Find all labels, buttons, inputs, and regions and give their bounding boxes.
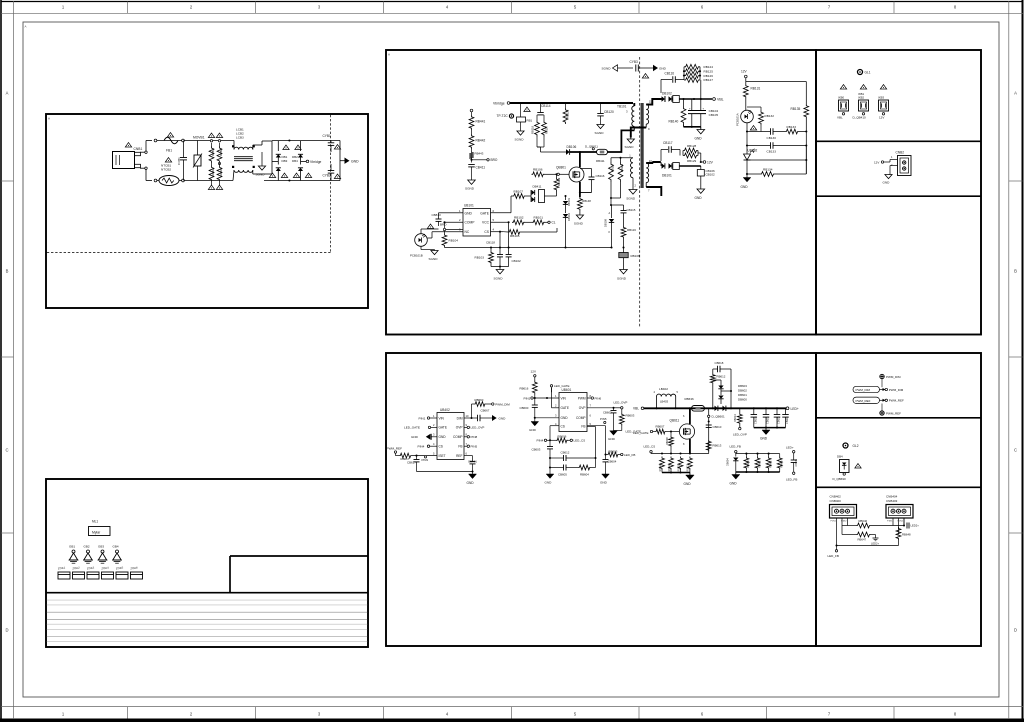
svg-text:CB612: CB612 bbox=[561, 451, 570, 455]
svg-text:DIM: DIM bbox=[457, 416, 463, 420]
svg-text:UB601: UB601 bbox=[562, 388, 572, 392]
svg-text:DB602: DB602 bbox=[738, 388, 747, 392]
wire secondary pin10 bbox=[646, 162, 661, 163]
svg-text:RB104: RB104 bbox=[449, 239, 459, 243]
varistor MOVB1 bbox=[197, 141, 199, 156]
svg-text:LED_FB: LED_FB bbox=[828, 554, 839, 558]
resistor RB103 bbox=[490, 248, 492, 252]
ground SGND secondary bbox=[630, 138, 632, 140]
wire opto to pin3 bbox=[420, 229, 422, 234]
svg-text:VBL: VBL bbox=[633, 407, 639, 411]
capacitor CB104 CB105 bbox=[691, 99, 693, 111]
wire Vbridge rail thick bbox=[510, 102, 633, 104]
transformer aux winding bbox=[631, 158, 634, 178]
ground GND UB601 vcc bbox=[531, 422, 539, 426]
svg-text:DB103: DB103 bbox=[567, 198, 571, 206]
svg-text:SGND: SGND bbox=[595, 131, 605, 135]
resistor RB106 gate bbox=[532, 172, 545, 177]
bridge diode DB2 bbox=[300, 141, 302, 151]
svg-text:SGND: SGND bbox=[494, 277, 504, 281]
wire cap bank bottom bbox=[754, 427, 786, 429]
svg-text:RB114: RB114 bbox=[611, 163, 615, 172]
capacitor CYB2 bbox=[328, 170, 335, 172]
svg-text:RB129: RB129 bbox=[687, 159, 697, 163]
node terminals line side bbox=[154, 139, 157, 142]
optocoupler PCB101A bbox=[745, 99, 747, 111]
thermistor NTCB1 NTCB2 bbox=[159, 176, 179, 186]
warning triangle opto bbox=[750, 126, 756, 130]
svg-text:GND: GND bbox=[608, 437, 616, 441]
svg-text:PIN9: PIN9 bbox=[422, 458, 429, 462]
svg-text:IXB0: IXB0 bbox=[838, 96, 845, 100]
svg-text:DB601: DB601 bbox=[738, 393, 747, 397]
sheet outer edge bbox=[1, 1, 1024, 3]
svg-text:DB411: DB411 bbox=[533, 185, 542, 189]
svg-text:RB128: RB128 bbox=[687, 144, 697, 148]
svg-text:CB813: CB813 bbox=[432, 213, 442, 217]
svg-text:PIN1: PIN1 bbox=[524, 396, 531, 400]
transformer secondary top bbox=[646, 105, 648, 125]
snubber riser bbox=[712, 384, 714, 408]
diodes DB103 DB104 CS bbox=[565, 196, 567, 200]
right column divider 2 bbox=[816, 195, 981, 197]
svg-text:D_QB410: D_QB410 bbox=[853, 116, 867, 120]
ground SGND under RB148 bbox=[579, 211, 581, 215]
warning triangle at CNB1 bbox=[125, 143, 131, 147]
svg-text:CB622: CB622 bbox=[778, 416, 781, 424]
boost diodes DB600-DB603 bbox=[720, 383, 722, 386]
node D_QB601 bbox=[708, 408, 710, 453]
node LED_GATE 601 bbox=[550, 385, 552, 387]
svg-text:GND: GND bbox=[600, 481, 608, 485]
svg-text:CYB2: CYB2 bbox=[323, 174, 332, 178]
warning triangle on rail bbox=[524, 107, 530, 111]
ground GND cap bank bbox=[765, 428, 767, 430]
svg-text:RB118: RB118 bbox=[531, 125, 535, 134]
wire gate drive riser bbox=[585, 161, 587, 170]
resistor RB603 bbox=[621, 409, 623, 413]
svg-text:Vbridge: Vbridge bbox=[493, 102, 505, 106]
node PIN5 out bbox=[464, 445, 467, 447]
svg-text:RB621: RB621 bbox=[687, 464, 690, 472]
transformer secondary bottom bbox=[646, 163, 648, 183]
svg-text:CB618: CB618 bbox=[715, 361, 724, 365]
svg-text:RB105: RB105 bbox=[510, 234, 520, 238]
resistor RB612 bbox=[710, 374, 715, 385]
svg-text:LED2+: LED2+ bbox=[871, 542, 879, 546]
pin PWM_DIM plated bbox=[880, 374, 884, 378]
capacitor CB130 bbox=[770, 128, 772, 135]
svg-text:PWM_REF: PWM_REF bbox=[889, 399, 904, 403]
wire secondary pin9 down bbox=[645, 124, 647, 127]
pin PWM_REF plated bbox=[880, 411, 884, 415]
svg-text:ML1: ML1 bbox=[92, 520, 98, 524]
node aux junction bbox=[610, 204, 612, 206]
wire OVP row bbox=[587, 407, 614, 409]
svg-text:LED_FB: LED_FB bbox=[786, 478, 797, 482]
wire pin4 CS bbox=[491, 231, 501, 233]
ground GND opto bbox=[743, 178, 751, 182]
svg-text:CB130: CB130 bbox=[767, 136, 777, 140]
block 1 dashed partition bbox=[330, 115, 332, 253]
svg-text:Mylar: Mylar bbox=[92, 530, 101, 534]
connector CNB1 bbox=[113, 152, 135, 169]
svg-text:RB442: RB442 bbox=[476, 139, 486, 143]
svg-text:RB647: RB647 bbox=[858, 538, 867, 542]
resistor RB131 bbox=[743, 84, 748, 99]
svg-text:RB148: RB148 bbox=[582, 199, 591, 203]
wire QB611 drain bbox=[689, 408, 691, 424]
capacitor CB605 bbox=[563, 465, 565, 471]
svg-text:COMP: COMP bbox=[576, 416, 586, 420]
svg-text:PIN4: PIN4 bbox=[418, 445, 425, 449]
divider resistors RXB lower bbox=[209, 166, 214, 182]
block 2 power stage border bbox=[386, 50, 816, 335]
svg-text:LB402: LB402 bbox=[659, 387, 668, 391]
svg-text:RB125: RB125 bbox=[704, 69, 714, 73]
LED driver block border bbox=[386, 353, 816, 646]
svg-text:LED_GATE: LED_GATE bbox=[633, 431, 648, 435]
resistor RB105 cs bbox=[500, 231, 503, 233]
svg-text:PWM_REF: PWM_REF bbox=[886, 412, 901, 416]
svg-text:LED_GATE: LED_GATE bbox=[404, 426, 420, 430]
resistor RB132 bbox=[760, 107, 762, 111]
ground SGND sense bbox=[499, 267, 501, 270]
resistor RB116 bbox=[621, 226, 626, 238]
svg-text:CS: CS bbox=[561, 425, 565, 429]
svg-text:CL: CL bbox=[552, 221, 556, 225]
svg-text:RB1: RB1 bbox=[527, 119, 533, 123]
resistor RB102 vcc bbox=[512, 220, 525, 225]
wire connector pins down bbox=[836, 518, 838, 550]
svg-text:GND: GND bbox=[351, 160, 359, 164]
svg-text:CXB1: CXB1 bbox=[177, 157, 181, 165]
svg-text:A: A bbox=[388, 53, 390, 57]
capacitor CB411 bbox=[468, 164, 475, 166]
capacitor CXB1 bbox=[183, 141, 185, 158]
ground SGND under opto bbox=[431, 251, 438, 255]
svg-text:RB133: RB133 bbox=[787, 125, 797, 129]
svg-text:RB101: RB101 bbox=[534, 216, 544, 220]
wire LED_FB left drop bbox=[835, 550, 837, 552]
cap at LED2+ pin bbox=[903, 518, 905, 526]
transformer core dashed line bbox=[639, 57, 641, 327]
svg-text:CB623: CB623 bbox=[786, 416, 789, 424]
svg-text:CB667: CB667 bbox=[481, 409, 490, 413]
svg-text:B: B bbox=[6, 269, 9, 274]
svg-text:GB2: GB2 bbox=[84, 545, 90, 549]
divider resistors RXB upper bbox=[210, 140, 212, 142]
svg-text:RB108: RB108 bbox=[631, 254, 641, 258]
svg-text:CB617: CB617 bbox=[407, 461, 416, 465]
resistor RB605 fb bbox=[587, 425, 600, 427]
svg-text:GATE: GATE bbox=[480, 211, 490, 215]
svg-text:GND: GND bbox=[529, 428, 537, 432]
zener DB604 bbox=[733, 458, 738, 461]
transformer core bbox=[641, 103, 644, 188]
svg-text:RB113: RB113 bbox=[620, 163, 624, 172]
svg-text:P1N1: P1N1 bbox=[887, 521, 893, 523]
choke windings bbox=[234, 147, 253, 149]
svg-text:PWM_DIM: PWM_DIM bbox=[856, 388, 871, 392]
resistor RB607 bbox=[653, 431, 655, 433]
node BRO source pin bbox=[470, 109, 473, 112]
resistor RB128 bbox=[683, 148, 698, 153]
node terminals after fuse bbox=[182, 139, 185, 142]
svg-text:BRO: BRO bbox=[440, 222, 447, 226]
svg-text:PCB101A: PCB101A bbox=[736, 113, 740, 126]
svg-text:PCB101B: PCB101B bbox=[410, 254, 423, 258]
svg-text:D: D bbox=[5, 628, 8, 633]
node PIN6 out bbox=[587, 397, 591, 399]
wire top rail bbox=[157, 140, 234, 142]
rail diodes series bbox=[715, 406, 718, 411]
resistor RB608 gate pulldown bbox=[670, 432, 672, 437]
wire fb top row bbox=[735, 453, 737, 457]
svg-text:CB620: CB620 bbox=[754, 416, 757, 424]
svg-text:GL2: GL2 bbox=[853, 444, 859, 448]
right column bottom divider 1 bbox=[816, 417, 981, 419]
resistor RB129 bbox=[683, 153, 698, 158]
svg-text:PWM_DIM: PWM_DIM bbox=[886, 375, 901, 379]
wire sense bottom bbox=[661, 470, 663, 473]
capacitor CB102 bbox=[499, 248, 501, 255]
svg-text:GND: GND bbox=[695, 196, 703, 200]
resistor RB606 cs bbox=[550, 439, 556, 441]
svg-text:RB607: RB607 bbox=[656, 425, 665, 429]
svg-text:LED_OVP: LED_OVP bbox=[733, 432, 747, 436]
zone ticks top/bottom bbox=[127, 2, 129, 14]
svg-text:PIN5: PIN5 bbox=[600, 417, 607, 421]
svg-text:GND: GND bbox=[545, 481, 553, 485]
svg-text:OVP: OVP bbox=[456, 426, 463, 430]
svg-text:12V: 12V bbox=[707, 161, 714, 165]
svg-text:GND: GND bbox=[411, 435, 419, 439]
svg-text:OVP: OVP bbox=[579, 406, 586, 410]
ground SGND under RB1 bbox=[520, 122, 522, 131]
ground GND arrow right of CB667 bbox=[492, 415, 497, 421]
svg-text:GB3: GB3 bbox=[98, 545, 104, 549]
svg-text:DB4: DB4 bbox=[837, 455, 843, 459]
svg-text:CB605: CB605 bbox=[558, 473, 567, 477]
svg-text:Vbridge: Vbridge bbox=[310, 160, 322, 164]
resistor RB442 bbox=[471, 130, 473, 134]
svg-text:UB402: UB402 bbox=[440, 408, 450, 412]
svg-text:A: A bbox=[25, 25, 27, 29]
svg-text:GND: GND bbox=[730, 482, 738, 486]
svg-text:GND: GND bbox=[467, 481, 475, 485]
svg-text:GATE: GATE bbox=[439, 426, 447, 430]
svg-text:PIN4: PIN4 bbox=[537, 439, 544, 443]
svg-text:GND: GND bbox=[659, 67, 667, 71]
right column bottom divider 2 bbox=[816, 486, 981, 488]
svg-text:CB115: CB115 bbox=[627, 208, 636, 212]
resistor RB646 bbox=[842, 525, 856, 527]
wire secondary pin7 bbox=[645, 183, 647, 187]
svg-text:P1N1: P1N1 bbox=[831, 521, 837, 523]
svg-text:SGND: SGND bbox=[602, 67, 612, 71]
fuse FB1 bbox=[164, 137, 178, 144]
bridge rail joins bbox=[278, 140, 300, 142]
resistor RB126 bbox=[684, 73, 700, 78]
svg-text:DB108: DB108 bbox=[604, 219, 608, 227]
svg-text:CB114: CB114 bbox=[541, 104, 551, 108]
svg-text:GND: GND bbox=[465, 211, 473, 215]
svg-text:UB101: UB101 bbox=[464, 204, 474, 208]
svg-text:A: A bbox=[1014, 91, 1017, 96]
resistor RB107 bbox=[513, 194, 526, 199]
svg-text:SGND: SGND bbox=[429, 257, 439, 261]
resistor RB613 bbox=[706, 440, 711, 452]
wire caps to gnd bbox=[683, 125, 685, 127]
svg-text:SGND: SGND bbox=[574, 222, 584, 226]
svg-text:12V: 12V bbox=[874, 160, 879, 164]
svg-text:CB102: CB102 bbox=[706, 173, 716, 177]
svg-text:CNB2: CNB2 bbox=[896, 151, 905, 155]
svg-text:IXB3: IXB3 bbox=[878, 96, 885, 100]
node gate pin bbox=[557, 173, 559, 175]
net flag PWM_REF bbox=[853, 397, 880, 403]
svg-text:RXB1: RXB1 bbox=[211, 148, 215, 156]
svg-text:BRO: BRO bbox=[491, 158, 498, 162]
svg-text:VCC: VCC bbox=[482, 221, 490, 225]
filter output GND arrow bbox=[339, 141, 341, 181]
resistor RB104 bbox=[442, 234, 447, 247]
svg-text:RB134: RB134 bbox=[763, 168, 773, 172]
svg-text:RB443: RB443 bbox=[475, 152, 484, 156]
svg-text:QB611: QB611 bbox=[670, 419, 680, 423]
node LED+ output bbox=[786, 407, 789, 410]
svg-text:12V: 12V bbox=[879, 116, 884, 120]
right column divider 1 bbox=[816, 140, 981, 142]
wire secondary pin11 to DB102 bbox=[646, 99, 661, 105]
svg-text:CB608: CB608 bbox=[795, 459, 798, 467]
wire boost rail bbox=[644, 407, 786, 409]
resistor RB441 bbox=[469, 115, 474, 130]
svg-text:TP-T2C: TP-T2C bbox=[497, 114, 509, 118]
wire CNB2 pin2 to gnd bbox=[890, 165, 898, 167]
notch sub-block bbox=[229, 556, 231, 593]
ground GND under CB105 bbox=[700, 127, 702, 130]
svg-text:RB117: RB117 bbox=[545, 125, 549, 134]
wire pin5 VCC bbox=[491, 221, 509, 223]
svg-text:COMP: COMP bbox=[453, 435, 463, 439]
wire 12V rail to RB135 bbox=[745, 78, 747, 84]
resistor RB101 vcc bbox=[525, 221, 532, 223]
resistor RB648 bbox=[898, 530, 900, 535]
svg-text:VBL: VBL bbox=[837, 116, 843, 120]
resistor RB113 bbox=[620, 158, 622, 162]
ground GND fb bbox=[602, 474, 610, 478]
svg-text:DB104: DB104 bbox=[567, 213, 571, 221]
svg-text:RB140: RB140 bbox=[669, 120, 679, 124]
wire fb bottom row bbox=[736, 471, 780, 473]
svg-text:DB4: DB4 bbox=[292, 159, 298, 163]
warning triangle FB1 bbox=[167, 133, 173, 137]
svg-text:CYB1: CYB1 bbox=[323, 134, 332, 138]
block 1 AC input border bbox=[46, 114, 368, 308]
warning triangle NTCB bbox=[165, 158, 171, 162]
bridge diode DB3 bbox=[277, 161, 279, 164]
wire QB611 source bbox=[689, 439, 691, 454]
svg-text:CB116: CB116 bbox=[665, 72, 675, 76]
capacitor CB133 bbox=[770, 142, 772, 149]
svg-text:CYB3: CYB3 bbox=[630, 60, 639, 64]
svg-text:GATE: GATE bbox=[561, 406, 569, 410]
svg-text:CB603: CB603 bbox=[532, 448, 541, 452]
svg-text:RB603: RB603 bbox=[626, 414, 635, 418]
svg-text:CB105: CB105 bbox=[709, 113, 719, 117]
svg-text:CB102: CB102 bbox=[512, 259, 522, 263]
indicator GL1 bbox=[858, 70, 863, 75]
wire QB801 drain bbox=[579, 152, 581, 167]
zone band lines bbox=[1, 12, 1023, 14]
svg-text:RB131: RB131 bbox=[751, 87, 761, 91]
wire node row 1 bbox=[747, 131, 771, 133]
resistor RB109 bbox=[556, 174, 558, 177]
fb resistors RB640-RB643 bbox=[745, 454, 747, 457]
svg-text:CB600: CB600 bbox=[520, 406, 529, 410]
resistor RB108 fusible box bbox=[623, 248, 625, 253]
svg-text:B: B bbox=[1014, 269, 1017, 274]
wire aux pin1 to vcc resistors bbox=[611, 157, 633, 159]
svg-text:RB604: RB604 bbox=[580, 473, 589, 477]
svg-text:CB116: CB116 bbox=[596, 174, 605, 178]
resistor RB125 bbox=[684, 69, 700, 74]
svg-text:GND: GND bbox=[439, 435, 447, 439]
svg-text:NC: NC bbox=[465, 230, 470, 234]
warning triangles connector row bbox=[840, 85, 846, 89]
svg-text:RB103: RB103 bbox=[475, 256, 485, 260]
svg-text:GB1: GB1 bbox=[69, 545, 75, 549]
svg-text:LB403: LB403 bbox=[660, 400, 669, 404]
svg-text:12V: 12V bbox=[531, 370, 537, 374]
svg-text:RB106: RB106 bbox=[533, 168, 543, 172]
resistor RB127 bbox=[684, 78, 700, 83]
ground GND fb bank bbox=[735, 472, 737, 475]
svg-text:LED+: LED+ bbox=[791, 407, 799, 411]
wire QB801 source bbox=[579, 182, 581, 197]
svg-text:LED2+: LED2+ bbox=[911, 524, 920, 528]
svg-text:PIN8: PIN8 bbox=[471, 435, 478, 439]
output capacitor bank CB620-CB623 bbox=[753, 408, 755, 414]
svg-text:RB124: RB124 bbox=[704, 65, 714, 69]
bridge diode DB1 bbox=[277, 141, 279, 151]
svg-text:LED_FB: LED_FB bbox=[624, 453, 635, 457]
svg-text:RB441: RB441 bbox=[476, 120, 486, 124]
svg-text:DB102: DB102 bbox=[662, 92, 672, 96]
capacitor CYB1 bbox=[330, 139, 332, 141]
svg-text:12V: 12V bbox=[741, 70, 748, 74]
svg-text:RB107: RB107 bbox=[514, 190, 524, 194]
resistor RB124 bbox=[684, 64, 700, 69]
svg-text:TB101: TB101 bbox=[617, 105, 627, 109]
svg-text:SGND: SGND bbox=[625, 145, 635, 149]
svg-text:RB648: RB648 bbox=[902, 533, 911, 537]
svg-text:RB102: RB102 bbox=[514, 216, 524, 220]
ground GND cs filter bbox=[549, 468, 551, 475]
svg-text:DB106: DB106 bbox=[567, 145, 577, 149]
svg-text:RB619: RB619 bbox=[668, 464, 671, 472]
svg-text:RB608: RB608 bbox=[666, 437, 669, 445]
ground SGND under CB120 bbox=[600, 116, 602, 125]
svg-text:PWM: PWM bbox=[578, 396, 586, 400]
resistor RB135 bbox=[804, 104, 809, 119]
node VBL output bbox=[682, 98, 684, 100]
svg-text:SGND: SGND bbox=[626, 197, 636, 201]
resistor RB647 bbox=[841, 526, 843, 535]
svg-text:LED_CS: LED_CS bbox=[644, 445, 656, 449]
